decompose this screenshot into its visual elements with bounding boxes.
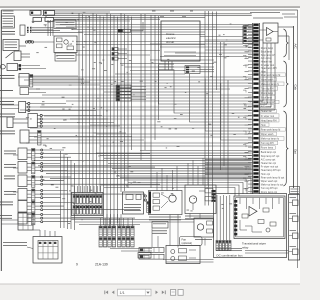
svg-text:(optional): (optional) <box>182 242 193 245</box>
svg-text:1/1: 1/1 <box>120 291 125 295</box>
wire mid harness lines <box>18 77 252 95</box>
switch working lamp switch SW3 <box>0 74 100 88</box>
svg-text:Turn sig RH opt: Turn sig RH opt <box>261 187 278 190</box>
wire right vertical bus <box>205 11 228 206</box>
connector lamp connectors CN7 CN8 <box>99 218 152 258</box>
switch makeup horn switch SW5 <box>0 102 96 113</box>
wire crane left bus <box>141 14 159 188</box>
svg-text:Back lamp opt: Back lamp opt <box>261 151 276 154</box>
svg-text:Head lamp RH opt: Head lamp RH opt <box>261 169 281 172</box>
relay horn relay K2 <box>2 32 26 51</box>
label relay see sheet <box>152 222 168 234</box>
connector cab main connector strip CN1 <box>243 23 285 194</box>
connector fuse block CN4 <box>243 26 253 44</box>
wire fan to DC box <box>163 260 214 263</box>
connector crane terminal block CN2 <box>185 66 214 74</box>
motor fan optional M2 <box>139 237 202 264</box>
block daylight wiper controller U3 <box>123 192 144 214</box>
wire DC box internal feeders <box>217 195 230 241</box>
svg-text:Rear work lamp fd opt: Rear work lamp fd opt <box>261 176 285 179</box>
lamp pilot lamp LP1 <box>0 64 46 71</box>
svg-text:Cab: Cab <box>294 85 298 91</box>
connector wiper motor connector CN5 <box>72 186 104 218</box>
wire relay to fuse box <box>245 251 288 254</box>
label transistor wiper relay <box>242 242 266 250</box>
connector socket feed CN11 <box>18 213 33 230</box>
relay heater relay K6 <box>194 218 214 240</box>
wire top harness lines <box>60 25 252 35</box>
wire lower harness bundle A <box>34 151 252 179</box>
label crane pins text <box>158 64 174 70</box>
svg-text:A/C: A/C <box>294 44 298 50</box>
diode noise suppressor D1 <box>118 22 143 33</box>
switch horn switch cluster SW1 <box>30 11 252 22</box>
label sheet corner note <box>282 14 297 17</box>
svg-text:21A-139: 21A-139 <box>95 263 108 267</box>
svg-text:Fan: Fan <box>182 237 187 241</box>
wire main vertical harness bus <box>79 13 132 225</box>
svg-text:Fr wiper mot opt: Fr wiper mot opt <box>261 166 279 169</box>
switch light switch SW6 <box>7 114 120 128</box>
wire left edge stubs <box>1 105 24 224</box>
label clearance text <box>4 176 15 179</box>
svg-text:relay: relay <box>242 245 249 249</box>
svg-text:A/C comp opt: A/C comp opt <box>261 158 276 161</box>
label DC combination box <box>217 254 244 258</box>
label switch text A <box>0 90 13 92</box>
connector DC box edge terminals CN9 <box>212 190 216 202</box>
relay transistor wiper relay U4 <box>234 196 285 239</box>
wire harness to cab connector staircase <box>0 65 252 146</box>
label tail lamp text <box>0 202 13 205</box>
switch wiper switch SW7 <box>0 130 144 145</box>
svg-text:Make-up lamp rly opt: Make-up lamp rly opt <box>261 184 284 187</box>
switch SW4 <box>20 88 46 95</box>
lamp license lamp LP7 <box>0 213 135 225</box>
svg-text:DC combination box: DC combination box <box>217 254 244 258</box>
wire lamp feeder bus <box>61 151 75 230</box>
svg-text:circuit: circuit <box>166 40 174 44</box>
svg-text:9: 9 <box>76 263 78 267</box>
wire into crane assigned box <box>48 20 53 36</box>
wire crane to cab lines <box>150 37 263 51</box>
label fuse note corner <box>3 11 14 13</box>
block DC combination box outline <box>214 194 287 258</box>
label socket assy optional <box>3 243 33 249</box>
label cab harness title <box>250 13 283 19</box>
block right fuse column F1-F4 <box>288 187 299 261</box>
lamp front turn lamp LP2 <box>4 148 150 160</box>
wire socket feed <box>33 230 55 237</box>
relay horn relay pins K2a <box>20 25 83 35</box>
label light switch text <box>0 114 15 117</box>
wire crane area links <box>115 53 252 74</box>
wire wiper relay feed <box>100 178 251 196</box>
connector inline pins CN12 <box>25 40 54 43</box>
wire machinery links <box>152 158 208 248</box>
relay label box K1 <box>1 16 14 28</box>
lamp tail lamp LP6 <box>18 201 140 213</box>
op-amp wiper amplifier U2 <box>259 23 293 60</box>
connector stair rows CN13 <box>112 48 127 61</box>
label crane circuit note <box>54 20 76 28</box>
svg-text:Wiper wash opt: Wiper wash opt <box>261 180 278 183</box>
connector controller pins <box>144 195 149 213</box>
wire wiper lower links <box>72 214 195 226</box>
wire flasher outputs <box>76 42 252 56</box>
lamp clearance lamp LP4 <box>18 175 160 187</box>
relay charge lamp relay K5 <box>149 191 183 220</box>
label flasher note <box>55 53 76 61</box>
lamp rear turn lamp LP5 <box>4 189 145 201</box>
label page number <box>76 263 108 267</box>
lamp head lamp LP3 <box>4 162 155 174</box>
connector DC combination connectors CN10 <box>216 241 242 251</box>
viewer pager toolbar <box>105 289 183 296</box>
switch lever SW2 <box>6 51 31 61</box>
svg-text:Heater fan opt: Heater fan opt <box>261 162 276 165</box>
svg-text:Opt: Opt <box>294 149 298 154</box>
relay flasher unit K3 <box>54 36 77 53</box>
motor washer motor M1 <box>185 185 216 219</box>
wire amp output bus <box>252 43 275 110</box>
connector socket assy CN6 <box>33 237 62 264</box>
block crane electric circuit U1 <box>161 21 200 70</box>
svg-text:Stop lamp LH opt: Stop lamp LH opt <box>261 155 280 158</box>
connector intermediate CN3 <box>116 85 146 101</box>
wire lower harness bundle B <box>205 160 252 175</box>
label wire color codes texture <box>26 12 251 223</box>
label harness group braces <box>284 26 298 188</box>
svg-text:Horn opt: Horn opt <box>261 173 271 176</box>
